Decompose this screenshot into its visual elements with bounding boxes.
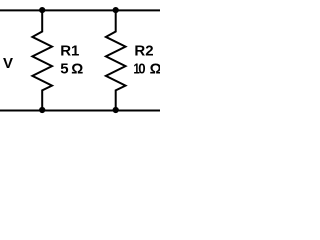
svg-text:5: 5	[60, 60, 68, 77]
svg-text:Ω: Ω	[150, 60, 160, 77]
svg-text:R2: R2	[134, 42, 153, 59]
svg-text:V: V	[3, 55, 13, 72]
svg-text:R1: R1	[60, 42, 79, 59]
svg-text:Ω: Ω	[71, 60, 83, 77]
svg-text:0: 0	[138, 60, 145, 77]
